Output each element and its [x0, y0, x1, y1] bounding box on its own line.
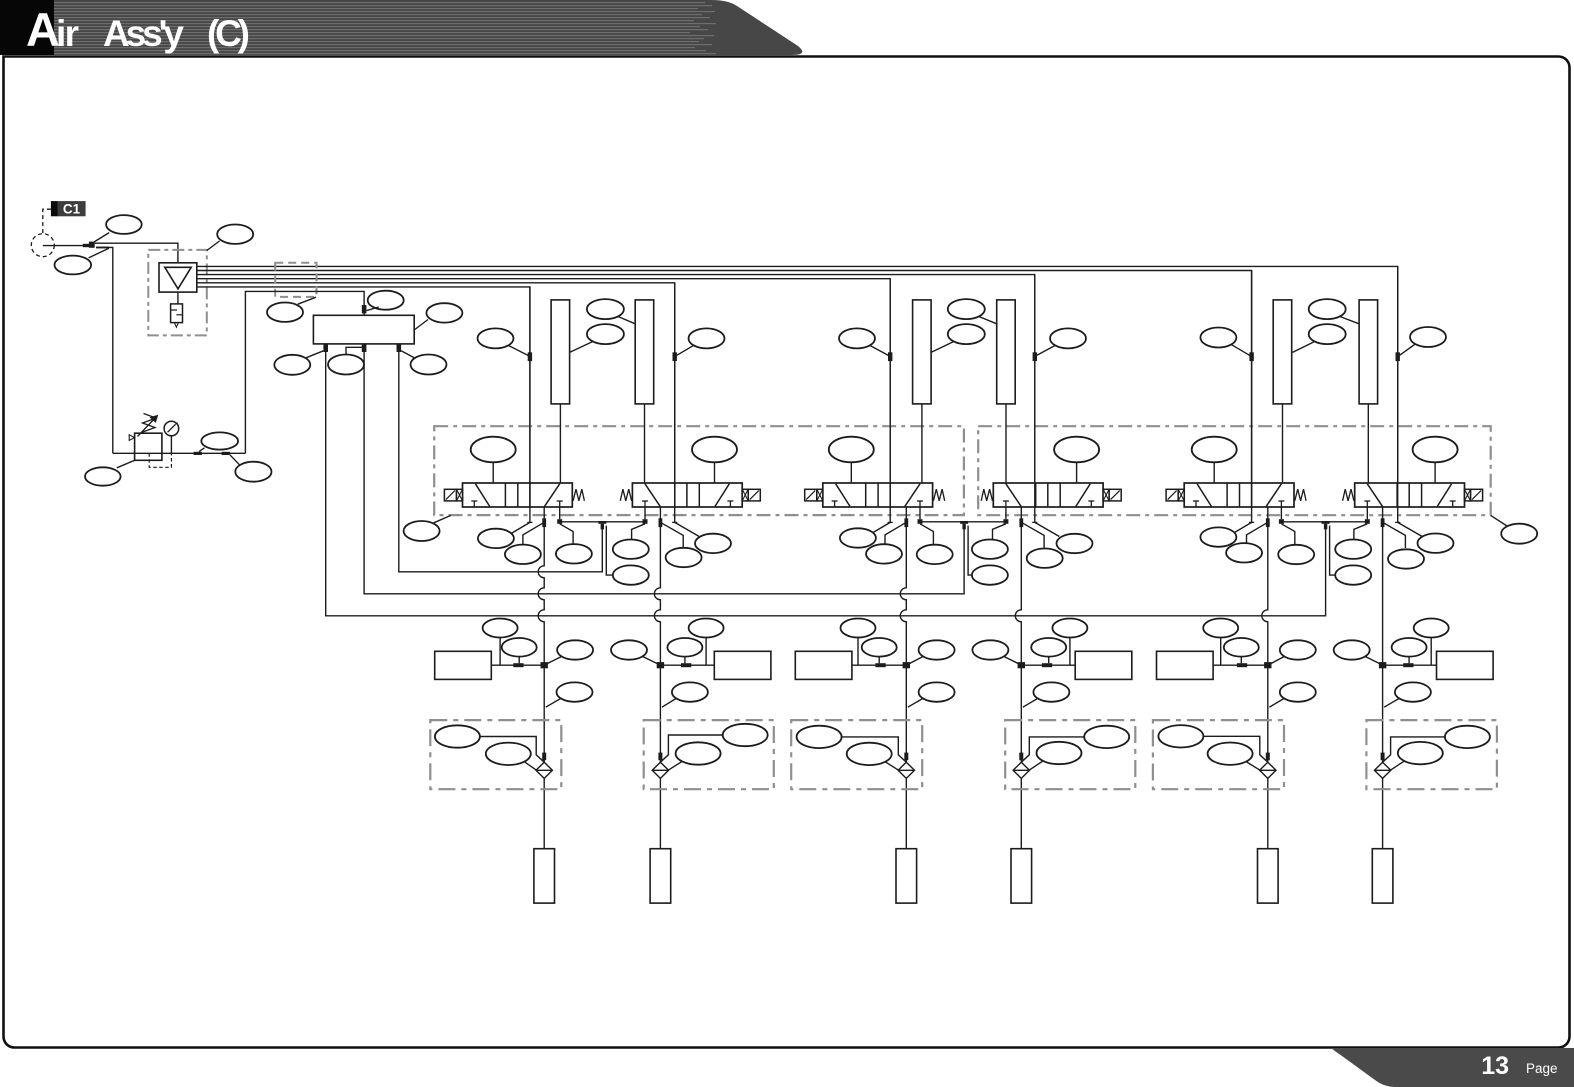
- tick under J1: [96, 247, 109, 249]
- connector port circle (dashed): [31, 234, 54, 257]
- tick fitting B: [222, 452, 230, 455]
- balloon (pair 3 upper): [1335, 540, 1371, 559]
- solenoid valve V3: [805, 483, 945, 507]
- wire balloon to enclosure: [207, 241, 220, 251]
- check valve CV6: [1374, 753, 1390, 779]
- regulator adjust flag: [129, 435, 134, 441]
- balloon (muffler 2 a): [689, 619, 724, 666]
- balloon (valve V2): [692, 437, 737, 483]
- check valve CV3: [898, 753, 914, 779]
- T junction pair 1: [598, 521, 606, 529]
- actuator line column 1 lower: [543, 778, 545, 848]
- valve V4 outlet plumbing: [993, 507, 1060, 548]
- link line pair 1: [560, 521, 645, 523]
- balloon (air supply): [217, 225, 253, 244]
- solenoid valve V1: [444, 483, 584, 507]
- wire fitting B to balloon: [230, 455, 240, 465]
- svg-text:Ass'y: Ass'y: [103, 13, 184, 54]
- wire to balloon lower-left: [89, 248, 109, 258]
- actuator line column 2 lower: [659, 778, 661, 848]
- balloon (muffler 6 c): [1334, 640, 1380, 663]
- svg-text:C1: C1: [63, 201, 81, 216]
- muffler M3: [795, 651, 910, 679]
- balloon (V1 fan 2): [505, 545, 541, 564]
- balloon (manifold feed): [368, 291, 404, 310]
- balloon (manifold out 1): [274, 355, 310, 375]
- balloon (V1 fan 1): [478, 529, 514, 548]
- regulator spring arrow: [138, 414, 158, 437]
- actuator line column 1: [538, 507, 544, 762]
- balloon (valve V1): [471, 437, 516, 483]
- valve V5 outlet plumbing: [1233, 507, 1295, 545]
- balloon (V5 fan 2): [1226, 543, 1262, 562]
- wire T drop to balloon pair 1: [606, 526, 614, 576]
- balloon (V2 fan 1): [695, 534, 731, 553]
- balloon (check 5 b): [1208, 743, 1261, 771]
- balloon (valve V3): [829, 437, 874, 483]
- page number band: [1332, 1048, 1574, 1087]
- solenoid valve V4: [981, 483, 1121, 507]
- muffler M4: [1018, 651, 1132, 679]
- link line pair 2: [920, 521, 1006, 523]
- wire circle to junction: [43, 244, 90, 247]
- actuator line column 5: [1262, 507, 1268, 762]
- balloon (manifold out 2): [328, 355, 364, 375]
- wire regulator output run: [135, 452, 246, 454]
- title black box: [0, 0, 54, 55]
- balloon (manifold): [426, 303, 462, 322]
- balloon (bundle connector): [267, 303, 303, 322]
- wire balloon to fitting A: [199, 448, 205, 452]
- balloon (muffler 5 a): [1203, 619, 1238, 666]
- wire main drop to regulator: [96, 247, 113, 453]
- pilot line to V4: [1033, 275, 1037, 523]
- return line Y1: [399, 344, 603, 572]
- balloon (muffler 6 a): [1414, 619, 1449, 666]
- balloon (pair 2 lower): [972, 565, 1008, 584]
- balloon (pilot fitting V3): [839, 328, 889, 355]
- title band: [0, 0, 802, 55]
- cylinder tube B6: [1359, 300, 1378, 483]
- air source box: [159, 263, 197, 292]
- cylinder tube B1: [551, 300, 570, 483]
- wire J1 to balloon: [94, 233, 109, 242]
- balloon (check 6 a): [1383, 726, 1490, 763]
- wire balloon to box A: [434, 515, 451, 522]
- valve V3 outlet plumbing: [872, 507, 934, 545]
- bundle connector dashed box: [275, 263, 316, 297]
- wire balloon to out 3: [401, 351, 414, 358]
- pressure gauge G1: [164, 421, 179, 436]
- nozzle cylinder N6: [1372, 849, 1393, 903]
- valve group box B (dash-dot): [978, 426, 1490, 515]
- balloon (check 4 b): [1029, 742, 1082, 771]
- check valve enclosure 5: [1153, 720, 1284, 789]
- balloon (valve V6): [1413, 437, 1458, 483]
- balloon (regulator body): [85, 467, 121, 485]
- balloon (V3 port R): [917, 545, 953, 564]
- balloon (V5 fan 1): [1200, 527, 1236, 546]
- nozzle cylinder N2: [650, 849, 671, 903]
- balloon (hose 1): [546, 682, 593, 707]
- wire gauge stem: [170, 436, 172, 454]
- balloon (regulator out 1): [201, 432, 238, 449]
- muffler M2: [657, 651, 771, 679]
- balloon (valve V5): [1192, 437, 1237, 483]
- muffler M6: [1379, 651, 1493, 679]
- check valve CV5: [1260, 753, 1276, 779]
- wire T drop to balloon pair 2: [968, 526, 973, 576]
- balloon (muffler 3 b): [862, 638, 897, 663]
- balloon (pilot fitting V2): [676, 328, 725, 355]
- balloon (check 3 b): [847, 743, 899, 771]
- balloon (inlet top): [106, 215, 142, 234]
- balloon (hose 4): [1023, 682, 1070, 707]
- check valve enclosure 3: [791, 720, 922, 789]
- tick manifold feed: [362, 305, 367, 313]
- wire balloon to feed tick: [367, 307, 379, 311]
- pilot line to V1: [528, 287, 532, 523]
- balloon (muffler 5 b): [1224, 638, 1259, 663]
- balloon (muffler 2 c): [611, 640, 657, 663]
- manifold block: [313, 315, 414, 344]
- svg-text:13: 13: [1481, 1052, 1509, 1080]
- muffler M5: [1157, 651, 1272, 679]
- page number text: [1481, 1052, 1557, 1080]
- balloon (V6 fan 2): [1388, 549, 1424, 568]
- balloon (muffler 4 a): [1052, 619, 1087, 666]
- balloon (V4 fan 1): [1057, 534, 1093, 553]
- balloon (V5 port R): [1278, 545, 1314, 564]
- cylinder tube B4: [997, 300, 1016, 483]
- balloon (check 4 a): [1021, 726, 1129, 763]
- nozzle cylinder N4: [1011, 849, 1032, 903]
- wire regulator riser to manifold: [245, 291, 364, 453]
- svg-text:ir: ir: [56, 13, 79, 54]
- balloon (pair 1 upper): [613, 540, 649, 559]
- valve V2 outlet plumbing: [632, 507, 700, 548]
- balloon (pair 3 lower): [1335, 565, 1371, 584]
- nozzle cylinder N3: [896, 849, 917, 903]
- balloon (V3 fan 2): [866, 544, 902, 563]
- wire source to filter: [177, 292, 179, 304]
- cylinder tube B3: [913, 300, 932, 483]
- solenoid valve V2: [620, 483, 760, 507]
- check valve CV1: [536, 753, 552, 779]
- nozzle cylinder N1: [534, 849, 555, 903]
- return line Y3: [326, 352, 1326, 616]
- check valve enclosure 4: [1005, 720, 1135, 789]
- air source triangle: [165, 267, 191, 289]
- balloon (muffler 3 c): [909, 640, 954, 663]
- solenoid valve V5: [1166, 483, 1306, 507]
- balloon (pilot fitting V6): [1399, 327, 1446, 356]
- connector label C1: [51, 201, 86, 216]
- balloon (V1 port R): [556, 544, 592, 563]
- wire balloon to box B: [1491, 515, 1507, 526]
- pilot line to V2: [673, 283, 677, 523]
- balloon (muffler 2 b): [667, 638, 702, 663]
- pilot supply bundle (6 nested runs): [197, 266, 1398, 483]
- balloon (V6 fan 1): [1418, 534, 1454, 553]
- svg-text:A: A: [26, 3, 60, 56]
- balloon (V3 fan 1): [840, 528, 876, 547]
- balloon (hose 3): [908, 682, 955, 707]
- valve V6 outlet plumbing: [1354, 507, 1422, 548]
- check valve enclosure 1: [430, 720, 561, 789]
- balloon (muffler 1 c): [547, 640, 593, 663]
- link line pair 3: [1281, 521, 1367, 523]
- nozzle cylinder N5: [1258, 849, 1279, 903]
- T junction pair 2: [960, 521, 968, 529]
- balloon (muffler 5 c): [1271, 640, 1316, 663]
- balloon pair (cylinders 1-2): [570, 299, 636, 352]
- wire drop into regulator: [113, 452, 135, 454]
- actuator line column 5 lower: [1267, 778, 1269, 848]
- actuator line column 4: [1015, 507, 1021, 762]
- svg-text:(C): (C): [207, 13, 250, 54]
- actuator line column 3: [900, 507, 906, 762]
- balloon (muffler 6 b): [1392, 638, 1427, 663]
- balloon (hose 2): [662, 682, 708, 707]
- regulator RG1 body: [135, 433, 162, 460]
- wire connector box to balloon: [298, 297, 316, 304]
- balloon (hose 6): [1384, 682, 1431, 707]
- wire supply top run: [95, 243, 178, 263]
- wire jog manifold out 2: [346, 347, 364, 354]
- balloon (pair 2 upper): [972, 540, 1008, 559]
- junction square J1: [89, 242, 95, 248]
- check valve CV2: [652, 753, 668, 779]
- balloon (regulator out 2): [235, 462, 271, 482]
- check valve CV4: [1013, 753, 1029, 779]
- valve group box A (dash-dot): [434, 426, 964, 515]
- valve V1 outlet plumbing: [511, 507, 573, 545]
- actuator line column 6 lower: [1382, 778, 1384, 848]
- balloon (pilot fitting V5): [1200, 328, 1250, 356]
- manifold out tick 1: [323, 344, 328, 352]
- dashed leader to C1: [43, 209, 51, 233]
- balloon (check 3 a): [797, 726, 907, 763]
- balloon (muffler 4 c): [972, 640, 1018, 663]
- air supply dash-dot enclosure: [148, 250, 207, 336]
- balloon (muffler 1 a): [483, 619, 518, 666]
- balloon (check 5 a): [1158, 725, 1267, 762]
- cylinder tube B2: [635, 300, 654, 483]
- pilot line to V3: [888, 279, 892, 523]
- actuator line column 3 lower: [905, 778, 907, 848]
- filter F1: [171, 304, 183, 323]
- balloon (group A): [404, 521, 440, 541]
- balloon (V2 fan 2): [666, 548, 702, 567]
- solenoid valve V6: [1343, 483, 1483, 507]
- actuator line column 2: [654, 507, 660, 762]
- balloon (check 2 b): [668, 742, 721, 770]
- manifold out tick 2: [362, 344, 367, 352]
- balloon (group B): [1501, 524, 1537, 544]
- balloon (check 2 a): [660, 724, 767, 762]
- balloon (valve V4): [1054, 437, 1099, 483]
- balloon (V4 fan 2): [1027, 549, 1063, 568]
- cylinder tube B5: [1273, 300, 1292, 483]
- balloon (muffler 1 b): [502, 638, 537, 663]
- regulator dashed drain box: [149, 453, 171, 467]
- balloon (check 1 b): [486, 743, 537, 771]
- balloon (muffler 4 b): [1031, 638, 1066, 663]
- muffler M1: [435, 651, 548, 679]
- manifold out tick 3: [397, 344, 402, 352]
- actuator line column 6: [1382, 507, 1384, 762]
- balloon (manifold out 3): [411, 355, 447, 375]
- filter drain arrow: [174, 323, 178, 328]
- wire manifold to balloon: [414, 320, 428, 331]
- T junction pair 3: [1322, 521, 1330, 529]
- balloon (check 6 b): [1390, 742, 1443, 770]
- balloon pair (cylinders 5-6): [1293, 299, 1360, 352]
- return line Y2: [364, 352, 964, 594]
- balloon (pair 1 lower): [613, 565, 649, 584]
- actuator line column 4 lower: [1020, 778, 1022, 848]
- svg-text:Page: Page: [1526, 1061, 1558, 1076]
- pilot line to V6: [1396, 266, 1400, 522]
- check valve enclosure 6: [1366, 720, 1497, 789]
- balloon (check 1 a): [435, 725, 544, 762]
- balloon (inlet bottom): [55, 256, 92, 275]
- wire T drop to balloon pair 3: [1330, 526, 1337, 576]
- tick fitting A: [194, 452, 202, 455]
- balloon (muffler 3 a): [841, 619, 876, 666]
- pilot line to V5: [1249, 271, 1253, 523]
- balloon (hose 5): [1269, 682, 1316, 707]
- balloon pair (cylinders 3-4): [931, 299, 997, 352]
- balloon (pilot fitting V1): [478, 328, 529, 355]
- wire balloon to out 1: [306, 351, 323, 358]
- wire balloon to regulator: [117, 460, 135, 468]
- balloon (pilot fitting V4): [1036, 328, 1086, 355]
- check valve enclosure 2: [644, 720, 774, 789]
- title text Air Ass'y (C): [26, 3, 250, 56]
